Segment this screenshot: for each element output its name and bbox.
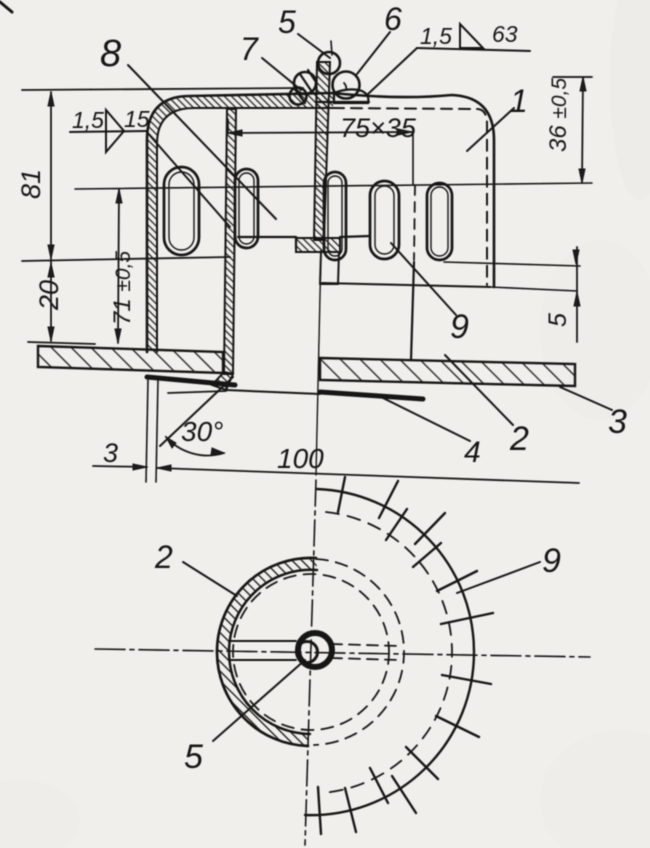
extension 75x35 left tick — [227, 119, 229, 133]
arrow 71 top — [116, 189, 122, 203]
svg-text:9: 9 — [450, 308, 469, 346]
dashed circle r78 — [233, 574, 389, 730]
nut right dome — [333, 72, 360, 99]
weld flag triangle left — [106, 110, 124, 152]
nut left lump — [294, 72, 316, 94]
slot S3 — [324, 172, 346, 260]
cap bottom rim line (right half) — [322, 283, 490, 287]
extension line plate top left — [28, 342, 95, 344]
svg-text:8: 8 — [100, 33, 121, 75]
big arc r163 — [305, 489, 474, 815]
extension line slots bottom left — [22, 257, 230, 261]
svg-text:30°: 30° — [181, 416, 223, 447]
tube left wall (sectioned) — [224, 109, 236, 374]
rim extension right — [490, 287, 577, 291]
flare thick line left — [147, 377, 235, 385]
leader 4 — [381, 397, 470, 441]
30 degree arc — [166, 437, 224, 455]
svg-text:2: 2 — [509, 420, 529, 458]
tube right wall visible — [411, 262, 414, 360]
stud (sectioned) — [314, 62, 330, 240]
spoke solid left — [229, 640, 296, 642]
svg-text:3: 3 — [103, 438, 118, 468]
baffle plate line right — [340, 236, 370, 237]
cap nut dome top — [318, 52, 340, 74]
extension line top left (81 top) — [22, 88, 303, 90]
svg-text:5: 5 — [278, 4, 296, 40]
arrow 30 arc start — [166, 437, 176, 448]
svg-text:1,5: 1,5 — [72, 107, 104, 133]
svg-text:9: 9 — [542, 542, 561, 580]
horizontal centerline bottom view (dash-dot) — [95, 649, 590, 657]
arrow 81 bottom — [48, 245, 54, 259]
arrow 36 bottom — [579, 169, 585, 183]
svg-text:4: 4 — [464, 436, 481, 469]
leader 1 — [467, 108, 514, 151]
svg-text:36 ±0,5: 36 ±0,5 — [545, 78, 572, 152]
dashed arc r93 right half — [314, 559, 404, 745]
weld flag triangle right — [460, 24, 483, 48]
stud stub bottom — [320, 283, 338, 285]
dimension 71 line — [118, 189, 119, 343]
leader 9 top view — [391, 243, 456, 315]
svg-text:75×35: 75×35 — [340, 113, 417, 143]
stud foot (sectioned) — [296, 238, 340, 252]
leader 3 — [560, 387, 612, 410]
arrow 3 — [133, 464, 147, 470]
arrow 71 bottom — [115, 329, 121, 343]
dimension 5 line — [576, 247, 578, 342]
arrow 20 top — [48, 263, 54, 277]
nut left lump low — [290, 88, 307, 105]
bottom view tube ring outer edge (sectioned, left half) — [217, 558, 316, 746]
leader 2 top view — [445, 355, 513, 425]
extension 75x35 right — [412, 132, 414, 185]
30 degree horizontal ray — [168, 391, 226, 393]
cap hidden inner edge (right half, dashed) — [333, 108, 487, 285]
cap outer outline — [147, 93, 494, 352]
dimension 36 line — [582, 77, 583, 183]
slot S1 — [164, 167, 199, 255]
svg-text:7: 7 — [240, 31, 259, 67]
cap wall hatch band — [147, 93, 333, 352]
arrow 20 bottom — [48, 327, 54, 341]
tube right wall hidden (dashed) — [414, 185, 415, 260]
nut scribble marks — [294, 70, 316, 103]
30 degree slanted ray — [160, 377, 233, 446]
cap inner edge (sectioned left half) — [157, 108, 333, 352]
plate right segment — [320, 358, 575, 386]
tube left wall flare — [212, 372, 233, 390]
bottom view tube ring inner edge — [229, 570, 317, 734]
leader 7 — [262, 58, 301, 90]
hub inner — [297, 642, 318, 663]
arrow 5 down — [573, 250, 579, 264]
scan corner mark — [0, 2, 12, 12]
dimension 100 line — [157, 468, 579, 483]
weld symbol 1,5\15 leader — [146, 131, 230, 227]
baffle plate line left — [238, 236, 296, 238]
slot S4 — [370, 181, 399, 259]
arrow 5 up — [574, 292, 580, 306]
slot S2 — [235, 169, 258, 248]
weld symbol 1,5\15 underline — [70, 131, 146, 132]
leader 2 bottom — [183, 562, 237, 596]
stud lower stub right — [338, 252, 339, 284]
svg-text:1: 1 — [510, 83, 528, 119]
svg-text:6: 6 — [384, 1, 402, 37]
leader 9 bottom — [457, 562, 540, 593]
spoke dashed right — [331, 644, 399, 646]
dimension 75x35 line — [228, 132, 412, 133]
dimension 3 line left — [93, 466, 147, 467]
svg-text:5: 5 — [184, 738, 203, 776]
arrow 81 top — [48, 92, 54, 106]
slot S5 — [427, 183, 452, 260]
main vertical centerline upper — [316, 250, 321, 475]
svg-text:71 ±0,5: 71 ±0,5 — [109, 251, 136, 325]
weld symbol 1,5/63 underline — [417, 48, 530, 51]
weld symbol 1,5/63 leader — [368, 48, 417, 94]
leader 6 — [357, 32, 390, 74]
dashed arc r141 right half — [321, 512, 452, 793]
hub outer — [298, 633, 332, 667]
nut right dome inner arc — [344, 83, 346, 90]
arrow 36 top — [580, 77, 586, 91]
slot ticks bottom view — [318, 477, 493, 834]
slots bottom extension right — [444, 262, 580, 266]
arrow 75x35 right — [398, 129, 412, 135]
arrow 100 left — [157, 465, 171, 471]
svg-text:5: 5 — [544, 313, 572, 327]
leader 8 — [128, 65, 276, 219]
stud lower stub left — [320, 252, 321, 284]
svg-text:15: 15 — [124, 106, 150, 132]
arrow 30 arc end — [211, 448, 224, 455]
extension line slot top level (long) — [75, 183, 592, 189]
svg-text:2: 2 — [154, 539, 173, 575]
svg-text:1,5: 1,5 — [420, 23, 452, 49]
dimension 20 line — [50, 261, 52, 341]
bottom view ring hatch — [217, 558, 317, 746]
stud centerline stub — [331, 41, 332, 55]
svg-text:20: 20 — [34, 280, 64, 311]
main vertical centerline lower (dash-dot) — [305, 480, 316, 845]
leader 5 bottom — [213, 660, 305, 741]
baffle step — [295, 237, 297, 249]
svg-text:81: 81 — [16, 169, 46, 199]
washer on cap top — [334, 89, 368, 103]
dimension 81 line — [50, 92, 52, 259]
plate left segment — [38, 346, 223, 373]
svg-text:63: 63 — [492, 21, 518, 47]
flare mouth line — [226, 390, 320, 394]
washer base line — [316, 101, 369, 103]
extension lines for 3 — [146, 380, 148, 482]
leader 5 top — [298, 34, 330, 58]
extension line washer top right — [553, 76, 592, 78]
flare thick line right — [320, 392, 423, 399]
arrow 75x35 left — [228, 130, 242, 136]
